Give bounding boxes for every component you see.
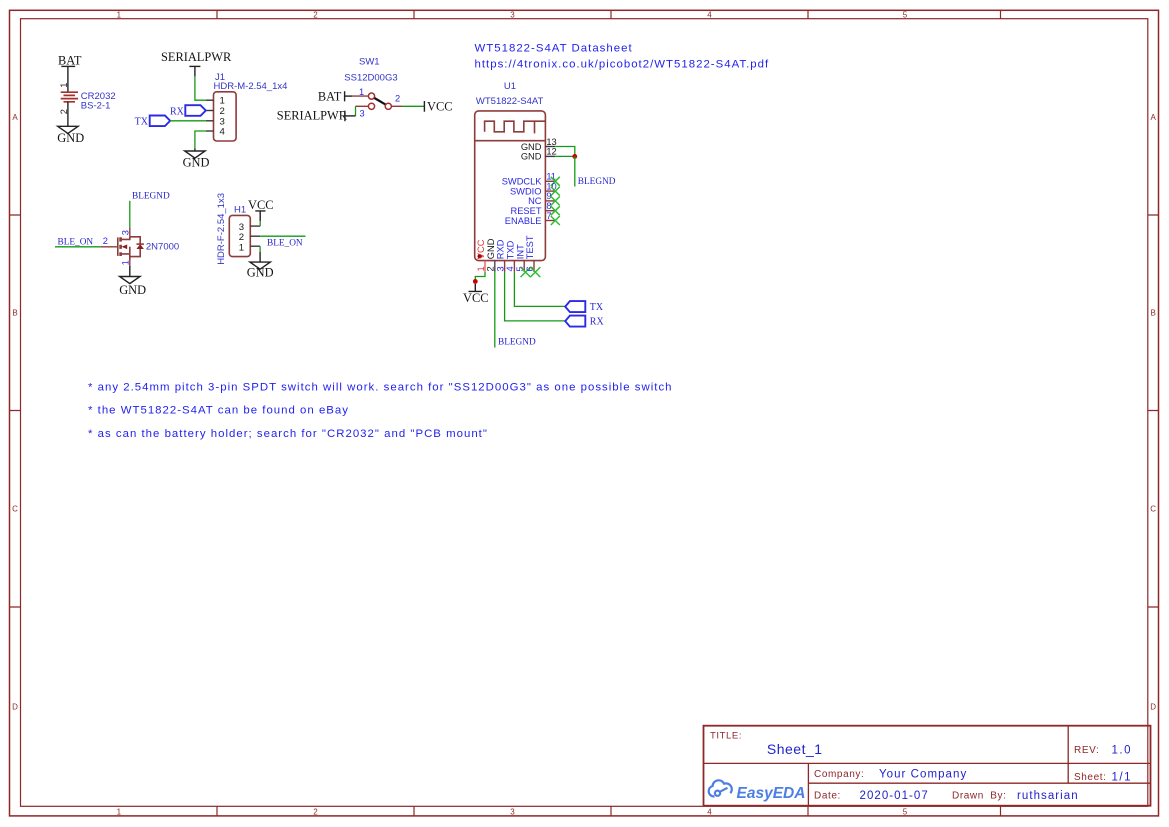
SW1 lever bbox=[374, 98, 385, 104]
svg-text:2N7000: 2N7000 bbox=[146, 241, 179, 252]
svg-text:2: 2 bbox=[395, 94, 400, 104]
svg-text:REV:: REV: bbox=[1074, 745, 1099, 756]
svg-text:B: B bbox=[12, 309, 17, 318]
wire BAT to battery pin 1 bbox=[67, 66, 69, 92]
ground symbol (battery) bbox=[58, 126, 78, 133]
svg-text:GND: GND bbox=[183, 155, 210, 169]
svg-text:1: 1 bbox=[59, 83, 69, 88]
svg-text:INT: INT bbox=[515, 244, 525, 259]
svg-text:2: 2 bbox=[103, 236, 108, 246]
wire VCC to H1 pin 3 bbox=[259, 221, 261, 226]
svg-text:BLEGND: BLEGND bbox=[578, 177, 616, 187]
svg-text:13: 13 bbox=[546, 137, 556, 147]
netport SERIALPWR (J1) bbox=[161, 50, 232, 66]
svg-text:2: 2 bbox=[313, 807, 318, 816]
svg-text:A: A bbox=[12, 113, 18, 122]
svg-text:ruthsarian: ruthsarian bbox=[1017, 790, 1079, 802]
svg-text:D: D bbox=[1150, 703, 1156, 712]
wire SW1 pin 3 to SERIALPWR bbox=[355, 106, 357, 116]
svg-text:VCC: VCC bbox=[427, 100, 452, 114]
pin wire SERIALPWR (SW1) bbox=[345, 115, 356, 117]
svg-text:2: 2 bbox=[313, 10, 318, 19]
wire BLE_ON to Q1 gate bbox=[55, 246, 101, 248]
svg-text:WT51822-S4AT: WT51822-S4AT bbox=[476, 96, 544, 107]
svg-text:TX: TX bbox=[590, 302, 604, 313]
U1 pin 2 GND (bottom) bbox=[486, 238, 496, 272]
wire BLEGND to Q1 drain bbox=[129, 201, 131, 227]
ruler letters left bbox=[12, 113, 18, 712]
wire H1 pin 1 to GND bbox=[259, 246, 261, 252]
svg-text:H1: H1 bbox=[234, 204, 246, 215]
svg-text:https://4tronix.co.uk/picobot2: https://4tronix.co.uk/picobot2/WT51822-S… bbox=[475, 58, 770, 70]
wire U1 pin4 to TX flag bbox=[514, 272, 565, 307]
svg-text:8: 8 bbox=[546, 201, 551, 211]
J1 pin 3 bbox=[206, 116, 225, 127]
wire U1 pin3 to RX flag bbox=[505, 272, 565, 321]
svg-text:1: 1 bbox=[117, 10, 122, 19]
svg-text:4: 4 bbox=[707, 807, 712, 816]
svg-text:RX: RX bbox=[170, 106, 185, 117]
wire H1 pin 2 BLE_ON bbox=[260, 235, 305, 237]
svg-text:C: C bbox=[12, 505, 18, 514]
datasheet note text bbox=[475, 43, 770, 71]
svg-text:NC: NC bbox=[528, 196, 542, 206]
svg-text:BAT: BAT bbox=[58, 54, 82, 68]
svg-text:BLEGND: BLEGND bbox=[498, 338, 536, 348]
power flag VCC (U1) bbox=[463, 284, 488, 305]
svg-text:BAT: BAT bbox=[318, 89, 342, 103]
netflag RX at J1 pin 2 bbox=[170, 105, 206, 117]
svg-text:U1: U1 bbox=[504, 81, 516, 92]
junction dot BLEGND bbox=[572, 154, 577, 159]
svg-text:VCC: VCC bbox=[463, 291, 488, 305]
svg-text:SWDIO: SWDIO bbox=[510, 186, 542, 196]
wire U1 pin13 to junction bbox=[555, 147, 575, 157]
svg-text:2: 2 bbox=[486, 266, 496, 271]
U1 pin 3 RXD (bottom) bbox=[495, 239, 505, 272]
svg-text:BS-2-1: BS-2-1 bbox=[81, 100, 111, 111]
netflag TX at J1 pin 3 bbox=[135, 116, 171, 128]
svg-text:D: D bbox=[12, 703, 18, 712]
U1 pin 1 decoration dot bbox=[478, 254, 482, 258]
J1 pin 4 bbox=[206, 127, 226, 138]
netport VCC (SW1) bbox=[424, 100, 452, 114]
svg-text:5: 5 bbox=[903, 807, 908, 816]
U1 internal divider bbox=[475, 140, 546, 142]
svg-text:3: 3 bbox=[510, 807, 515, 816]
U1 antenna squiggle bbox=[485, 121, 546, 133]
svg-text:Your Company: Your Company bbox=[879, 769, 967, 781]
Q1 pin 2 gate bbox=[101, 236, 118, 247]
svg-text:TXD: TXD bbox=[506, 240, 516, 259]
svg-text:GND: GND bbox=[521, 152, 542, 162]
J1 pin 1 bbox=[206, 96, 225, 107]
SW1 pin 2 bbox=[392, 94, 403, 107]
pin wire to ground (H1) bbox=[259, 252, 261, 262]
svg-text:12: 12 bbox=[546, 147, 556, 157]
U1 pin 11 SWDCLK bbox=[502, 172, 560, 187]
svg-text:GND: GND bbox=[57, 131, 84, 145]
svg-text:Sheet_1: Sheet_1 bbox=[767, 741, 823, 757]
svg-text:SERIALPWR: SERIALPWR bbox=[277, 109, 348, 123]
connector H1 body bbox=[229, 215, 250, 256]
battery BT1 CR2032 bbox=[61, 92, 78, 102]
wire U1 pin12 to junction bbox=[555, 155, 575, 157]
svg-text:1: 1 bbox=[359, 87, 364, 97]
svg-text:Date:: Date: bbox=[814, 791, 841, 802]
svg-text:2020-01-07: 2020-01-07 bbox=[860, 790, 929, 802]
H1 pin 3 bbox=[239, 222, 260, 233]
J1 pin 2 bbox=[206, 106, 225, 117]
ground symbol (J1) bbox=[185, 151, 205, 158]
svg-text:7: 7 bbox=[546, 211, 551, 221]
svg-text:3: 3 bbox=[495, 266, 505, 271]
EasyEDA logo bbox=[709, 780, 732, 796]
wire U1 pin2 to BLEGND bbox=[494, 272, 496, 348]
junction dot VCC bbox=[473, 279, 478, 284]
ruler numbers bottom bbox=[117, 807, 908, 816]
wire battery pin 2 to GND bbox=[67, 102, 69, 126]
svg-text:SERIALPWR: SERIALPWR bbox=[161, 50, 232, 64]
svg-text:3: 3 bbox=[121, 230, 131, 235]
svg-text:Sheet:: Sheet: bbox=[1074, 772, 1107, 783]
svg-text:ENABLE: ENABLE bbox=[505, 216, 542, 226]
Q1 pin 3 drain bbox=[121, 227, 131, 237]
U1 pin 12 GND bbox=[521, 147, 557, 162]
svg-text:VCC: VCC bbox=[248, 198, 273, 212]
svg-text:SS12D00G3: SS12D00G3 bbox=[344, 73, 397, 84]
wire J1 pin 4 to GND bbox=[195, 131, 206, 148]
wire SERIALPWR to J1 pin 1 bbox=[195, 76, 206, 100]
wire BAT to SW1 pin 1 bbox=[345, 95, 352, 97]
svg-text:TITLE:: TITLE: bbox=[710, 731, 742, 742]
netflag TX (U1) bbox=[565, 301, 604, 313]
netport BAT (SW1) bbox=[318, 89, 345, 103]
svg-text:* as can the battery holder; s: * as can the battery holder; search for … bbox=[88, 428, 488, 440]
svg-text:RXD: RXD bbox=[496, 239, 506, 259]
U1 pin 7 ENABLE bbox=[505, 211, 560, 226]
transistor Q1 2N7000 bbox=[118, 237, 144, 261]
svg-text:1: 1 bbox=[476, 266, 486, 271]
connector J1 body bbox=[214, 92, 237, 141]
svg-text:3: 3 bbox=[360, 108, 365, 118]
svg-text:1: 1 bbox=[121, 260, 131, 265]
top ruler ticks bbox=[217, 10, 1001, 18]
svg-text:C: C bbox=[1150, 505, 1156, 514]
svg-text:GND: GND bbox=[247, 266, 274, 280]
title block bbox=[704, 726, 1151, 806]
wire junction down BLEGND bbox=[574, 156, 576, 186]
svg-text:HDR-F-2.54_1x3: HDR-F-2.54_1x3 bbox=[216, 193, 227, 265]
svg-text:GND: GND bbox=[521, 142, 542, 152]
svg-text:SW1: SW1 bbox=[359, 57, 380, 68]
svg-text:4: 4 bbox=[707, 10, 712, 19]
svg-text:BLE_ON: BLE_ON bbox=[58, 238, 94, 248]
SW1 pole contact 1 bbox=[368, 93, 374, 99]
H1 pin 1 bbox=[239, 242, 260, 253]
netport SERIALPWR (SW1) bbox=[277, 109, 348, 123]
U1 pin 6 TEST (bottom) bbox=[525, 235, 541, 277]
svg-text:Company:: Company: bbox=[814, 769, 864, 780]
wire U1 pin1 to VCC bbox=[475, 272, 485, 282]
svg-text:4: 4 bbox=[505, 266, 515, 271]
svg-text:* any 2.54mm pitch 3-pin SPDT: * any 2.54mm pitch 3-pin SPDT switch wil… bbox=[88, 382, 673, 394]
right ruler ticks bbox=[1148, 215, 1159, 607]
ground symbol (H1) bbox=[250, 262, 270, 269]
svg-text:1: 1 bbox=[239, 242, 244, 253]
netport BAT (battery) bbox=[58, 54, 82, 68]
ruler numbers top bbox=[117, 10, 908, 19]
pin wire to ground (J1) bbox=[194, 148, 196, 151]
IC U1 body bbox=[475, 111, 546, 261]
svg-text:TX: TX bbox=[135, 117, 149, 128]
svg-text:EasyEDA: EasyEDA bbox=[737, 785, 806, 802]
svg-text:GND: GND bbox=[486, 238, 496, 259]
svg-text:B: B bbox=[1151, 309, 1156, 318]
SW1 pin 1 bbox=[352, 87, 368, 97]
SW1 throw contact 3 bbox=[368, 103, 374, 109]
svg-text:WT51822-S4AT Datasheet: WT51822-S4AT Datasheet bbox=[475, 43, 633, 55]
ruler letters right bbox=[1150, 113, 1156, 712]
SW1 common contact 2 bbox=[385, 103, 391, 109]
svg-text:* the WT51822-S4AT can be foun: * the WT51822-S4AT can be found on eBay bbox=[88, 405, 349, 417]
svg-text:4: 4 bbox=[220, 127, 226, 138]
netflag RX (U1) bbox=[565, 316, 604, 328]
SW1 pin 3 bbox=[356, 106, 369, 118]
wire Q1 source to GND bbox=[129, 266, 131, 277]
svg-text:GND: GND bbox=[119, 283, 146, 297]
svg-text:1/1: 1/1 bbox=[1112, 772, 1133, 784]
left ruler ticks bbox=[10, 215, 21, 607]
svg-text:RESET: RESET bbox=[511, 206, 542, 216]
Q1 pin 1 source bbox=[121, 260, 131, 265]
pin wire SERIALPWR down bbox=[194, 66, 196, 76]
svg-text:VCC: VCC bbox=[476, 239, 486, 259]
svg-text:BLEGND: BLEGND bbox=[132, 192, 170, 202]
netport VCC (H1) bbox=[248, 198, 273, 221]
svg-text:TEST: TEST bbox=[525, 235, 535, 259]
U1 pin 9 NC bbox=[528, 191, 560, 206]
U1 pin 10 SWDIO bbox=[510, 181, 560, 196]
U1 pin 8 RESET bbox=[511, 201, 560, 216]
H1 pin 2 bbox=[239, 232, 260, 243]
svg-text:1.0: 1.0 bbox=[1112, 745, 1133, 757]
U1 pin 4 TXD (bottom) bbox=[505, 240, 515, 272]
svg-text:1: 1 bbox=[117, 807, 122, 816]
notes text bbox=[88, 382, 673, 440]
U1 pin 13 GND bbox=[521, 137, 557, 152]
svg-text:HDR-M-2.54_1x4: HDR-M-2.54_1x4 bbox=[214, 81, 288, 92]
ground symbol (Q1) bbox=[120, 277, 140, 284]
bottom ruler ticks bbox=[217, 806, 1001, 816]
svg-text:3: 3 bbox=[510, 10, 515, 19]
U1 pin 5 INT (bottom) bbox=[515, 244, 531, 277]
svg-text:9: 9 bbox=[546, 191, 551, 201]
svg-text:5: 5 bbox=[903, 10, 908, 19]
U1 pin 1 VCC (bottom) bbox=[476, 239, 486, 272]
svg-text:SWDCLK: SWDCLK bbox=[502, 177, 543, 187]
svg-text:RX: RX bbox=[590, 317, 605, 328]
wire TX flag to J1 pin 3 bbox=[170, 120, 206, 122]
svg-text:Drawn By:: Drawn By: bbox=[952, 791, 1007, 802]
svg-text:BLE_ON: BLE_ON bbox=[267, 239, 303, 249]
svg-text:A: A bbox=[1151, 113, 1157, 122]
wire SW1 pin 2 to VCC bbox=[403, 105, 425, 107]
